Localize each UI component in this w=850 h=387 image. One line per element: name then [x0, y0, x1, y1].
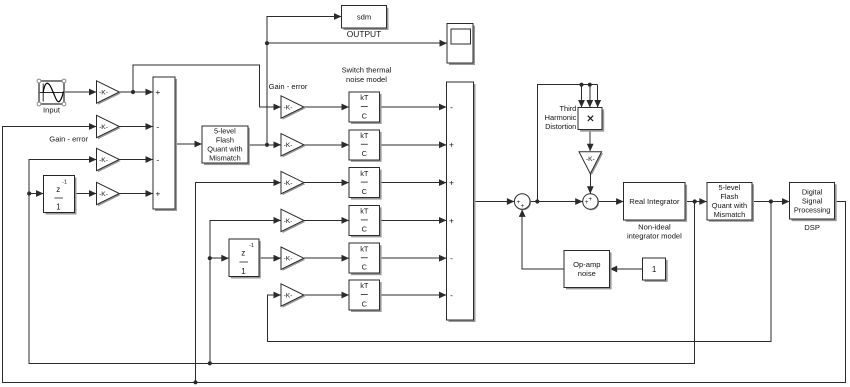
svg-text:Quant with: Quant with — [207, 145, 242, 154]
wire scope feed — [267, 40, 447, 47]
wire z1 to G4 — [75, 190, 97, 197]
unit delay block z1 (z^-1/1) — [44, 176, 77, 215]
wire product input drop 2 — [586, 85, 593, 108]
svg-text:1: 1 — [241, 267, 246, 276]
wire net DSP-feedback (DSP output to bottom rail y=382) — [3, 123, 846, 384]
wire S2 output to sum circle A — [474, 198, 515, 205]
sum circle A (+ +) — [514, 194, 531, 211]
svg-text:kT: kT — [360, 169, 369, 178]
gain G4 (-K-) — [97, 182, 121, 206]
wire T4 feed from RI rail (vertical x=209.8) — [208, 217, 281, 363]
svg-text:-: - — [450, 253, 453, 263]
gain K3 (-K- pointing down) — [579, 152, 603, 176]
svg-text:-: - — [156, 154, 159, 164]
quantizer block Q1 (5-level Flash Quant with Mismatch) — [202, 126, 250, 165]
svg-text:kT: kT — [360, 207, 369, 216]
wire S1 output to quantizer Q1 — [175, 141, 202, 148]
svg-text:OUTPUT: OUTPUT — [347, 29, 381, 39]
source block Input (sine wave, selected) — [37, 79, 66, 106]
wire T5 to kT/C block 5 — [304, 255, 349, 262]
svg-text:Mismatch: Mismatch — [714, 210, 746, 219]
svg-text:+: + — [585, 199, 589, 206]
wire G1 output to sum S1 (node at x=133) — [119, 89, 153, 96]
wire net RI-feedback (integrator output to bottom rail y=363, to row3 gain) — [27, 156, 695, 365]
svg-text:kT: kT — [360, 281, 369, 290]
product block (x) Third Harmonic Distortion — [578, 108, 604, 132]
svg-text:C: C — [362, 111, 368, 120]
wire THD tap up and across (nodes feeding product) — [537, 83, 597, 202]
svg-text:integrator model: integrator model — [627, 232, 682, 241]
gain T1 (-K-) — [281, 96, 305, 120]
svg-text:kT: kT — [360, 131, 369, 140]
svg-text:+: + — [155, 87, 160, 97]
integrator block Real Integrator — [624, 183, 688, 222]
svg-text:noise: noise — [578, 269, 596, 278]
svg-text:+: + — [449, 140, 454, 150]
sum block S1 (+ - - +) — [153, 77, 177, 211]
svg-text:C: C — [362, 225, 368, 234]
noise block Op-amp noise — [564, 250, 612, 289]
wire kT/C 1 to sum S2 — [380, 104, 447, 111]
svg-text:-K-: -K- — [99, 191, 108, 198]
wire kT/C 5 to sum S2 — [380, 255, 447, 262]
svg-text:-K-: -K- — [99, 89, 108, 96]
svg-text:-1: -1 — [62, 179, 67, 185]
wire kT/C 3 to sum S2 — [380, 179, 447, 186]
noise block kT/C 1 — [349, 92, 382, 124]
svg-text:kT: kT — [360, 244, 369, 253]
svg-text:C: C — [362, 263, 368, 272]
svg-text:+: + — [449, 178, 454, 188]
noise block kT/C 6 — [349, 280, 382, 312]
gain G3 (-K-) — [97, 148, 121, 172]
svg-text:Quant with: Quant with — [712, 201, 747, 210]
svg-text:-: - — [156, 121, 159, 131]
gain T3 (-K-) — [281, 171, 305, 195]
svg-text:Gain - error: Gain - error — [269, 82, 308, 91]
wire z1 input from RI rail — [29, 190, 43, 197]
svg-text:-: - — [450, 290, 453, 300]
wire op-amp noise to sum circle A bottom — [519, 209, 564, 269]
svg-text:-K-: -K- — [284, 180, 293, 187]
svg-text:DSP: DSP — [804, 223, 820, 232]
unit delay block z2 (z^-1/1) — [229, 239, 261, 279]
quantizer block Q2 (5-level Flash Quant with Mismatch) — [707, 182, 754, 222]
svg-text:Flash: Flash — [216, 136, 234, 145]
svg-text:-K-: -K- — [284, 256, 293, 263]
svg-text:C: C — [362, 187, 368, 196]
noise block kT/C 5 — [349, 243, 382, 275]
wire product output to gain K3 — [587, 130, 594, 152]
noise block kT/C 4 — [349, 205, 382, 237]
svg-text:sdm: sdm — [357, 13, 371, 22]
wire T3 to kT/C block 3 — [304, 179, 349, 186]
svg-text:Flash: Flash — [720, 192, 738, 201]
svg-text:Mismatch: Mismatch — [209, 154, 241, 163]
wire T2 to kT/C block 2 — [304, 141, 349, 148]
wire Q2 to DSP (node at x=770.9) — [752, 198, 790, 205]
wire T6 to kT/C block 6 — [304, 292, 349, 299]
wire G3 to S1 — [119, 156, 153, 163]
svg-text:1: 1 — [652, 265, 657, 274]
svg-text:5-level: 5-level — [214, 127, 236, 136]
svg-text:Third: Third — [559, 104, 576, 113]
svg-text:Gain - error: Gain - error — [49, 135, 88, 144]
wire Input to gain G1 — [64, 89, 97, 96]
wire product input drop 1 — [578, 85, 585, 108]
wire net Q2-feedback (to bottom rail y=341, hook up to T6) — [268, 202, 771, 342]
svg-text:1: 1 — [56, 202, 61, 211]
dsp block Digital Signal Processing — [790, 182, 837, 221]
wire gain K3 to sum circle B — [587, 174, 594, 194]
svg-text:Real Integrator: Real Integrator — [629, 197, 680, 206]
noise block kT/C 2 — [349, 130, 382, 162]
svg-text:z: z — [241, 248, 245, 257]
to-workspace block sdm — [342, 6, 389, 30]
svg-text:Harmonic: Harmonic — [545, 113, 577, 122]
wire kT/C 6 to sum S2 — [380, 292, 447, 299]
wire product input drop 3 — [594, 85, 601, 108]
wire constant to op-amp noise — [610, 266, 643, 273]
gain G1 (-K-) — [97, 81, 121, 105]
svg-text:C: C — [362, 299, 368, 308]
svg-text:-1: -1 — [249, 243, 254, 249]
gain T2 (-K-) — [281, 134, 305, 158]
gain T5 (-K-) — [281, 247, 305, 271]
svg-text:-: - — [450, 102, 453, 112]
sum block S2 (- + + + - -) — [447, 82, 476, 322]
svg-text:Non-ideal: Non-ideal — [638, 223, 671, 232]
wire T4 to kT/C block 4 — [304, 217, 349, 224]
svg-text:-K-: -K- — [284, 104, 293, 111]
svg-text:+: + — [155, 188, 160, 198]
svg-text:Op-amp: Op-amp — [573, 260, 600, 269]
svg-text:-K-: -K- — [284, 218, 293, 225]
wire kT/C 4 to sum S2 — [380, 217, 447, 224]
wire RI to quantizer Q2 (node at x=694.7) — [685, 198, 707, 205]
svg-text:-K-: -K- — [99, 124, 108, 131]
wire sum circle A to sum circle B (node at x=537) — [530, 198, 583, 205]
svg-text:-K-: -K- — [284, 142, 293, 149]
wire T1 to kT/C block 1 — [304, 104, 349, 111]
svg-text:Distortion: Distortion — [545, 122, 576, 131]
wire kT/C 2 to sum S2 — [380, 141, 447, 148]
wire z2 input tap — [210, 255, 229, 262]
gain G2 (-K-) — [97, 115, 121, 139]
svg-text:-K-: -K- — [586, 156, 595, 163]
scope block — [447, 24, 475, 66]
svg-text:Switch thermal: Switch thermal — [342, 66, 392, 75]
svg-text:noise model: noise model — [346, 75, 387, 84]
noise block kT/C 3 — [349, 168, 382, 200]
wire T3 feed from DSP rail (node at x=195.5) — [196, 179, 282, 382]
svg-text:Signal: Signal — [802, 196, 823, 205]
wire Q1 output to gain T2 (node at x=267) — [248, 141, 281, 148]
svg-text:Processing: Processing — [794, 205, 831, 214]
constant block 1 — [643, 258, 668, 282]
svg-text:z: z — [56, 185, 60, 194]
gain T6 (-K-) — [281, 284, 305, 308]
wire G2 to S1 — [119, 123, 153, 130]
gain T4 (-K-) — [281, 209, 305, 233]
svg-text:-K-: -K- — [284, 292, 293, 299]
svg-text:C: C — [362, 149, 368, 158]
svg-text:kT: kT — [360, 93, 369, 102]
wire sum circle B to Real Integrator — [598, 198, 624, 205]
wire G1 branch up to T1 — [133, 65, 281, 110]
svg-text:+: + — [521, 203, 525, 210]
svg-text:Digital: Digital — [802, 187, 823, 196]
svg-text:+: + — [588, 196, 592, 203]
wire G4 to S1 — [119, 190, 153, 197]
svg-text:5-level: 5-level — [719, 183, 741, 192]
svg-text:-K-: -K- — [99, 157, 108, 164]
wire Q1 branch up to sdm (node for scope at y=43) — [265, 13, 342, 145]
svg-text:Input: Input — [43, 106, 61, 115]
sum circle B (+ +) — [583, 194, 599, 210]
svg-text:+: + — [449, 215, 454, 225]
wire z2 output to T5 — [259, 255, 281, 262]
